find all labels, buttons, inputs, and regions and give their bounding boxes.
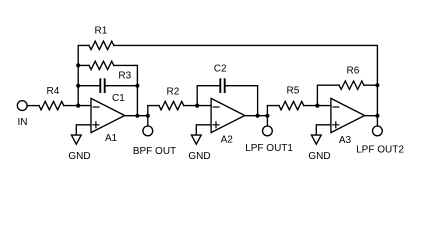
terminal IN xyxy=(17,101,27,111)
A2 plus sign xyxy=(213,122,219,128)
wire IN to R4 xyxy=(27,105,39,107)
svg-text:R6: R6 xyxy=(347,66,360,77)
node A3 output junction xyxy=(375,114,379,118)
resistor R3 xyxy=(89,61,114,69)
wire A2 output up to R5 xyxy=(267,106,279,116)
terminal LPF OUT1 xyxy=(263,126,273,136)
A1 plus sign xyxy=(93,122,99,128)
wire A1 output up to R2 xyxy=(148,106,159,116)
A2 minus sign xyxy=(213,106,219,108)
svg-text:R2: R2 xyxy=(167,86,180,97)
terminal BPF OUT xyxy=(143,126,153,136)
svg-text:LPF OUT1: LPF OUT1 xyxy=(245,143,293,154)
op-amp A1 xyxy=(91,98,125,132)
svg-text:R4: R4 xyxy=(47,86,60,97)
A3 plus sign xyxy=(333,122,339,128)
wire R4 to A1 inverting input xyxy=(64,105,91,107)
A3 minus sign xyxy=(333,106,339,108)
svg-text:GND: GND xyxy=(188,151,210,162)
svg-text:GND: GND xyxy=(68,151,90,162)
svg-text:R3: R3 xyxy=(118,70,131,81)
svg-text:IN: IN xyxy=(18,117,28,128)
svg-text:LPF OUT2: LPF OUT2 xyxy=(356,145,404,156)
node A2 inverting input xyxy=(195,104,199,108)
svg-text:R5: R5 xyxy=(287,86,300,97)
wire C1 row xyxy=(78,85,137,87)
wire BPF OUT stub xyxy=(147,116,149,126)
svg-text:C2: C2 xyxy=(214,64,227,75)
wire LPF OUT2 stub xyxy=(376,116,378,126)
wire A3 plus input to ground xyxy=(316,125,330,135)
node A3 inverting input xyxy=(315,104,319,108)
svg-text:A1: A1 xyxy=(105,133,118,144)
wire R3 row xyxy=(78,65,137,115)
wire R5 to A3 inverting input xyxy=(304,105,331,107)
wire LPF OUT1 stub xyxy=(266,116,268,126)
svg-text:A3: A3 xyxy=(339,135,352,146)
wire A3 output xyxy=(365,115,378,117)
wire C2 feedback loop xyxy=(197,86,257,116)
wire A2 output xyxy=(245,115,268,117)
wire A1 output xyxy=(125,115,148,117)
op-amp A3 xyxy=(331,98,365,132)
resistor R6 xyxy=(339,81,364,89)
wire A1 plus input to ground xyxy=(76,125,90,135)
svg-text:A2: A2 xyxy=(221,135,234,146)
svg-text:BPF OUT: BPF OUT xyxy=(133,146,176,157)
node junctions on A1 input network xyxy=(76,63,139,107)
svg-text:GND: GND xyxy=(308,151,330,162)
capacitor C2 xyxy=(220,79,224,92)
wire A2 plus input to ground xyxy=(196,125,210,135)
wire R2 to A2 inverting input xyxy=(184,105,211,107)
svg-text:R1: R1 xyxy=(95,25,108,36)
ground symbol G3 xyxy=(311,135,321,144)
capacitor C1 xyxy=(100,79,104,92)
ground symbol G1 xyxy=(71,135,81,144)
node R6 feedback junction xyxy=(375,83,379,87)
resistor R4 xyxy=(39,101,64,109)
resistor R2 xyxy=(159,101,184,109)
wire R1 feedback run: A1 input node up, across top, down to A3 output xyxy=(78,45,377,105)
node A2 output junctions xyxy=(256,114,270,118)
wire R6 feedback loop xyxy=(317,85,377,105)
ground symbol G2 xyxy=(191,135,201,144)
resistor R1 xyxy=(89,41,114,49)
A1 minus sign xyxy=(93,106,99,108)
op-amp A2 xyxy=(211,98,245,132)
resistor R5 xyxy=(279,101,304,109)
node A1 output junctions xyxy=(135,114,150,118)
terminal LPF OUT2 xyxy=(373,126,383,136)
wire feedback vertical to A3 output xyxy=(376,85,378,116)
svg-text:C1: C1 xyxy=(112,93,125,104)
